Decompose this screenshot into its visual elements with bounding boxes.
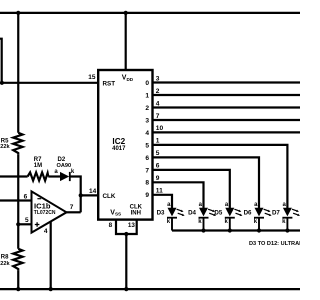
svg-text:a: a	[167, 202, 171, 208]
node bracket junction	[124, 232, 128, 236]
wire CLK to IC2 pin 14	[81, 194, 99, 196]
LED D4	[188, 202, 216, 233]
svg-text:D5: D5	[214, 209, 222, 216]
svg-text:a: a	[283, 202, 287, 208]
svg-text:10: 10	[156, 125, 164, 132]
svg-text:6: 6	[145, 155, 149, 162]
node Vdd top rail junction	[124, 11, 128, 15]
svg-text:2: 2	[156, 88, 160, 95]
resistor R8	[13, 249, 22, 271]
wire output 4 pin 10	[153, 131, 301, 133]
wire RST to IC2 pin 15	[2, 82, 99, 84]
op-amp IC1b	[32, 191, 67, 232]
LED D7	[272, 202, 300, 233]
svg-text:7: 7	[70, 204, 74, 211]
resistor R7	[28, 172, 49, 180]
svg-text:k: k	[254, 219, 258, 225]
IC2 4017 body	[98, 70, 152, 220]
svg-text:7: 7	[145, 167, 149, 174]
IC2 pin 8 / pin 13 bracket	[116, 220, 137, 234]
node Vss ground junction	[124, 287, 128, 291]
svg-text:CLK: CLK	[103, 193, 116, 200]
op-amp pin 4 wire to ground	[50, 222, 52, 289]
wire output 6 pin 5 to D6	[153, 157, 260, 208]
svg-text:9: 9	[145, 192, 149, 199]
wire divider lower segment	[17, 271, 19, 289]
svg-text:TL072CN: TL072CN	[34, 210, 56, 216]
svg-text:8: 8	[109, 222, 113, 229]
LED D5	[214, 202, 242, 233]
svg-text:3: 3	[145, 117, 149, 124]
svg-text:a: a	[199, 202, 203, 208]
op-amp plus input sign	[35, 222, 40, 227]
svg-text:D3 TO D12: ULTRABRIGHT: D3 TO D12: ULTRABRIGHT	[249, 241, 300, 247]
svg-text:OA90: OA90	[57, 163, 72, 169]
svg-text:6: 6	[156, 163, 160, 170]
svg-text:0: 0	[145, 80, 149, 87]
node op-amp pin5 junction	[16, 222, 20, 226]
node RST corner dot	[0, 81, 4, 85]
LED D3	[157, 202, 185, 231]
svg-text:4017: 4017	[112, 146, 126, 152]
svg-text:a: a	[254, 202, 258, 208]
svg-text:D3: D3	[157, 209, 165, 216]
svg-text:4: 4	[156, 100, 160, 107]
svg-text:6: 6	[24, 194, 28, 201]
wire output 9 pin 11 to D3	[153, 195, 173, 208]
diode D2 cathode bar	[69, 172, 71, 181]
svg-text:k: k	[225, 219, 229, 225]
svg-text:5: 5	[156, 150, 160, 157]
wire output 5 pin 1 to D7	[153, 145, 288, 208]
svg-text:IC2: IC2	[112, 137, 125, 146]
svg-text:D6: D6	[244, 209, 252, 216]
wire op-amp pin 5 input	[18, 223, 31, 225]
svg-text:4: 4	[145, 130, 149, 137]
svg-text:1: 1	[156, 138, 160, 145]
wire R7 to diode D2	[48, 175, 60, 177]
wire output 2 pin 4	[153, 106, 301, 108]
svg-text:k: k	[198, 219, 202, 225]
svg-text:22k: 22k	[0, 261, 10, 267]
svg-text:5: 5	[145, 142, 149, 149]
svg-text:k: k	[167, 219, 171, 225]
node CLK junction	[79, 193, 83, 197]
wire output 8 pin 9 to D4	[153, 182, 204, 208]
svg-text:a: a	[54, 169, 58, 175]
svg-text:D4: D4	[188, 209, 196, 216]
svg-text:9: 9	[156, 175, 160, 182]
wire output 1 pin 2	[153, 94, 301, 96]
svg-text:D7: D7	[272, 209, 280, 216]
wire output 0 pin 3	[153, 81, 301, 83]
svg-text:3: 3	[156, 75, 160, 82]
LED D6	[244, 202, 272, 233]
wire ground rail	[0, 288, 300, 290]
wire divider upper segment	[17, 13, 19, 133]
svg-text:4: 4	[44, 228, 48, 235]
wire resistor R7 lead-in	[0, 175, 28, 177]
wire top supply rail	[0, 12, 300, 14]
svg-text:INH: INH	[131, 210, 141, 216]
node pin4 ground junction	[49, 287, 53, 291]
resistor R5	[13, 133, 22, 155]
wire left-edge stub to RST	[0, 39, 2, 83]
svg-text:k: k	[282, 219, 286, 225]
wire output 7 pin 6 to D5	[153, 170, 230, 208]
svg-text:RST: RST	[103, 80, 116, 87]
node divider top junction	[16, 11, 20, 15]
svg-text:14: 14	[89, 188, 97, 195]
svg-text:R8: R8	[1, 255, 9, 261]
wire Vdd pin 16	[125, 13, 127, 70]
wire op-amp pin 6 input	[0, 199, 32, 201]
wire divider middle segment	[17, 155, 19, 249]
svg-text:VSS: VSS	[110, 209, 121, 216]
svg-text:8: 8	[145, 180, 149, 187]
svg-text:1: 1	[145, 92, 149, 99]
svg-text:5: 5	[25, 217, 29, 224]
svg-text:7: 7	[156, 113, 160, 120]
wire CLK node down to op-amp output	[80, 195, 82, 212]
op-amp minus input sign	[37, 198, 41, 200]
svg-text:2: 2	[145, 105, 149, 112]
svg-text:k: k	[71, 169, 75, 175]
svg-text:11: 11	[156, 188, 163, 195]
svg-text:VDD: VDD	[122, 75, 134, 82]
svg-text:CLK: CLK	[130, 204, 143, 210]
wire output 3 pin 7	[153, 119, 301, 121]
node R8 ground junction	[16, 287, 20, 291]
svg-text:1M: 1M	[34, 163, 42, 169]
wire LED cathode rail	[172, 229, 300, 231]
svg-text:15: 15	[88, 74, 96, 81]
svg-text:13: 13	[128, 222, 136, 229]
wire D2 cathode to CLK node	[70, 177, 81, 196]
svg-text:a: a	[225, 202, 229, 208]
wire Vss to ground	[125, 234, 127, 289]
svg-text:22k: 22k	[0, 144, 10, 150]
diode D2	[60, 172, 69, 181]
op-amp output wire pin 7	[67, 211, 81, 213]
